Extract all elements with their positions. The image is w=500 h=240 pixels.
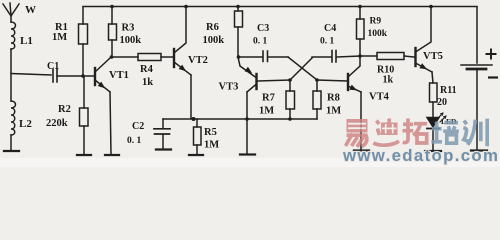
svg-text:R11: R11 [440, 85, 457, 96]
resistor R9 [357, 7, 365, 56]
ground (VT4 emitter) [354, 149, 369, 151]
inductor L1 [11, 22, 16, 49]
transistor VT2 [174, 7, 191, 118]
svg-text:R3: R3 [122, 23, 135, 34]
svg-text:100k: 100k [368, 29, 388, 39]
node R6/C3/VT3 collector [237, 55, 241, 59]
resistor R5 [194, 119, 202, 154]
ground (VT1 emitter) [105, 154, 119, 156]
paper background [0, 0, 500, 167]
svg-text:VT5: VT5 [423, 51, 443, 62]
wire C4 to VT3 base node [290, 58, 312, 80]
watermark chinese yi [346, 119, 368, 147]
svg-text:R2: R2 [58, 104, 71, 115]
svg-text:220k: 220k [46, 118, 68, 129]
capacitor C4 [312, 51, 360, 63]
node rail VT5 collector [429, 5, 433, 9]
label + (battery) [486, 49, 497, 60]
node R3/R4/VT1 collector [110, 55, 114, 59]
svg-text:C2: C2 [132, 121, 144, 132]
node rail VT2 collector [184, 5, 188, 9]
resistor R11 [430, 83, 438, 117]
capacitor C3 [239, 51, 288, 62]
watermark chinese tuo [403, 119, 428, 144]
svg-text:R5: R5 [204, 127, 217, 138]
transistor VT4 [317, 56, 361, 149]
node rail R9 [358, 5, 362, 9]
svg-text:1k: 1k [142, 77, 153, 88]
label - (battery) [488, 76, 498, 78]
svg-text:W: W [25, 4, 36, 16]
antenna W [3, 3, 19, 22]
ground (R2) [77, 154, 91, 156]
resistor R8 [313, 78, 321, 119]
battery GB [461, 7, 492, 149]
svg-text:www.edatop.com: www.edatop.com [342, 146, 499, 165]
node R1/R2/base [81, 74, 85, 78]
svg-text:1M: 1M [259, 106, 274, 117]
ground (R5) [189, 154, 203, 156]
svg-text:1k: 1k [383, 75, 394, 86]
svg-text:R4: R4 [140, 64, 154, 75]
ground (LED) [425, 150, 441, 152]
svg-text:L2: L2 [19, 118, 32, 130]
svg-text:0. 1: 0. 1 [253, 37, 268, 47]
transistor VT3 [245, 67, 290, 153]
bottom light strip [0, 158, 500, 167]
svg-text:C4: C4 [324, 23, 336, 34]
node R9/R10/C4/VT4 collector [358, 54, 362, 58]
resistor R3 [109, 7, 117, 57]
wire VT3 collector [238, 57, 256, 78]
wire C1 to VT1 base [57, 75, 94, 77]
capacitor C2 [154, 119, 170, 148]
wire L2 to ground [10, 135, 12, 150]
top rail [83, 6, 477, 8]
svg-text:0. 1: 0. 1 [127, 136, 142, 146]
wire C1 branch [11, 74, 51, 76]
emitter bus wire [163, 118, 317, 120]
node VT2 emitter / R5 bus [192, 117, 196, 121]
node R7 bottom [288, 117, 292, 121]
resistor R2 [80, 76, 89, 154]
ground (antenna) [4, 150, 19, 152]
watermark chinese di [374, 119, 400, 146]
wire antenna node [10, 49, 12, 101]
svg-text:VT3: VT3 [219, 82, 239, 93]
svg-text:R9: R9 [370, 17, 382, 27]
svg-text:R6: R6 [206, 22, 219, 33]
transistor VT1 [95, 57, 111, 154]
resistor R7 [286, 78, 295, 119]
ground (battery) [471, 149, 487, 151]
resistor R4 [111, 54, 173, 61]
svg-text:100k: 100k [120, 35, 142, 46]
ground (C2) [156, 148, 171, 150]
watermark chinese xun [463, 119, 487, 147]
svg-text:VT2: VT2 [188, 55, 208, 66]
svg-text:1M: 1M [326, 106, 341, 117]
node rail R3 [110, 5, 114, 9]
capacitor C1 [53, 69, 57, 82]
svg-text:1M: 1M [204, 140, 219, 151]
resistor R6 [235, 7, 243, 57]
watermark chinese pei [431, 122, 458, 144]
svg-text:L1: L1 [20, 35, 33, 47]
svg-text:20: 20 [437, 97, 447, 108]
svg-text:VT4: VT4 [369, 92, 390, 103]
wire C3 to VT4 base node [288, 57, 317, 80]
svg-text:VT1: VT1 [109, 70, 129, 81]
ground (VT3 emitter) [240, 153, 255, 155]
svg-text:R8: R8 [327, 93, 340, 104]
svg-text:0. 1: 0. 1 [320, 37, 335, 47]
resistor R1 [79, 7, 88, 76]
svg-text:C1: C1 [47, 61, 59, 72]
svg-text:C3: C3 [257, 23, 269, 34]
resistor R10 [360, 53, 414, 60]
node VT3 emitter crossing [245, 117, 249, 121]
inductor L2 [11, 101, 16, 135]
LED [427, 113, 446, 150]
svg-text:100k: 100k [203, 35, 225, 46]
svg-text:R7: R7 [262, 93, 275, 104]
svg-text:1M: 1M [52, 32, 67, 43]
node rail R6 [236, 5, 240, 9]
transistor VT5 [416, 7, 434, 83]
